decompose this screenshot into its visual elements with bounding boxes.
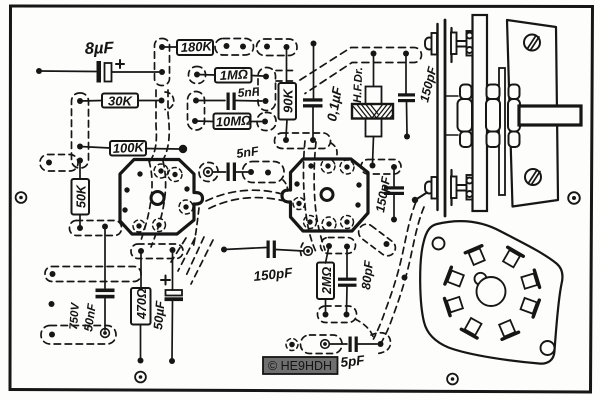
- harness dashed pocket below 90K: [275, 133, 331, 149]
- node dot feeding 90K: [284, 44, 290, 50]
- ring terminal right of 150pF: [304, 247, 313, 256]
- node dot: [265, 170, 271, 176]
- wire down to capacitor 50nF: [104, 227, 106, 289]
- node dot below 80pF: [344, 312, 350, 318]
- node dot top of 0,1uF: [311, 41, 317, 47]
- node dot below 0,1uF: [310, 137, 316, 143]
- wire to resistor 30K: [80, 100, 102, 103]
- harness dashed pocket around 180K left node: [155, 39, 170, 86]
- node dot 5nF right: [263, 98, 269, 104]
- node dot 5pF right: [378, 341, 384, 347]
- top mounting bolt: [425, 31, 473, 56]
- wire 1M right: [252, 75, 264, 78]
- wire 5pF right: [358, 343, 377, 345]
- wire to capacitor 5nF middle: [213, 171, 226, 173]
- svg-text:2MΩ: 2MΩ: [320, 267, 334, 295]
- wire to resistor 2M: [326, 246, 330, 263]
- harness dashed finger from socket V2: [355, 221, 398, 259]
- wire 50nF down: [104, 298, 106, 330]
- harness dashed pocket lower-left with dot: [40, 155, 78, 172]
- socket V2 dashed pin rings: [293, 159, 354, 231]
- resistor 180K: [177, 40, 213, 55]
- node dot below 90K: [283, 137, 289, 143]
- ring terminal 5pF left: [321, 340, 330, 349]
- socket V2 center hole: [321, 189, 333, 201]
- wire choke down: [373, 137, 374, 165]
- kidney plate mounting hole top-left: [433, 238, 445, 250]
- nut stack middle column: [486, 85, 500, 148]
- wire 30K right: [138, 100, 158, 102]
- node dot below choke: [370, 163, 376, 169]
- node dot top of 50nF: [102, 224, 108, 230]
- wire 80pF down: [346, 287, 349, 312]
- harness dashed pocket with two dots (top middle): [257, 39, 298, 56]
- wire to capacitor 150pF: [405, 54, 407, 94]
- resistor 50K vertical: [72, 179, 90, 215]
- harness dashed bundle below socket V1: [171, 237, 213, 284]
- node dot: [224, 43, 230, 49]
- svg-text:1MΩ: 1MΩ: [219, 67, 248, 83]
- harness dashed pocket around 5nF mid left: [199, 163, 218, 182]
- harness dashed curl around ring: [301, 243, 304, 259]
- svg-text:50µF: 50µF: [151, 300, 167, 330]
- harness dashed tail: [331, 143, 337, 157]
- wire 470R down: [140, 325, 142, 359]
- wire 150pF middle down: [393, 195, 395, 217]
- socket V1 dashed pin rings: [133, 164, 193, 232]
- harness dashed corridor right of 1M/5nF: [258, 68, 276, 111]
- wire to capacitor 5pF: [330, 343, 348, 345]
- wire to capacitor 80pF: [346, 247, 348, 278]
- shaft of gang capacitor: [519, 106, 581, 125]
- wire input to C 8uF: [39, 70, 96, 73]
- node dot 150pF bottom left: [221, 247, 227, 253]
- node dot 1M left: [194, 72, 200, 78]
- wire to capacitor 150pF middle: [393, 167, 395, 186]
- polarity plus of 50uF: [161, 276, 170, 285]
- node dot in pocket: [46, 160, 52, 166]
- capacitor 0,1uF: [303, 98, 323, 107]
- node dot: [264, 44, 270, 50]
- capacitor 8uF electrolytic: [97, 60, 125, 83]
- capacitor 5nF middle: [227, 163, 237, 182]
- harness dashed pocket right of 5nF mid: [243, 162, 285, 183]
- node dot top of 150pF (middle): [391, 164, 397, 170]
- kidney plate center hole: [477, 277, 506, 306]
- node dot below 50uF: [169, 358, 175, 364]
- socket V1 center hole: [151, 192, 164, 205]
- resistor 90K vertical: [279, 83, 297, 120]
- wire to HF choke: [373, 54, 375, 88]
- screw bottom on end plate: [525, 169, 541, 185]
- node dot bottom of 150pF middle: [391, 217, 397, 223]
- gang capacitor end plate: [507, 20, 558, 207]
- capacitor 150pF middle: [384, 186, 404, 195]
- node dot top of 150pF (top right): [403, 51, 409, 57]
- wire to capacitor 0,1uF: [313, 44, 315, 99]
- node dot in pocket: [49, 332, 55, 338]
- harness dashed corridor down from pocket: [150, 90, 156, 161]
- mounting target bottom-right: [447, 374, 458, 385]
- node dot 5nF left: [193, 98, 199, 104]
- capacitor 50nF 750V: [96, 289, 115, 299]
- nut stack left column: [458, 85, 473, 148]
- node dot 10M left: [192, 118, 198, 124]
- resistor 100K: [110, 141, 146, 156]
- harness dashed curl around 30K right node: [165, 92, 174, 110]
- svg-text:470Ω: 470Ω: [135, 288, 149, 320]
- capacitor 150pF (top right): [398, 93, 415, 102]
- node dot 10M right: [262, 119, 268, 125]
- wire to capacitor 150pF bottom: [224, 248, 266, 250]
- wire to capacitor 50uF: [172, 250, 174, 290]
- node dot 30K right: [159, 98, 165, 104]
- node dot 100K left: [77, 144, 83, 150]
- capacitor 5nF (middle) ring terminal: [204, 168, 213, 177]
- wire to resistor 10M: [195, 120, 214, 123]
- harness dashed pocket around 5nF/10M left nodes: [188, 92, 205, 131]
- capacitor 5pF: [349, 337, 358, 353]
- node dot above 50K: [77, 158, 83, 164]
- wire 90K down: [286, 120, 287, 138]
- wire 10M right: [251, 121, 263, 123]
- node dot right of 8uF: [159, 69, 165, 75]
- node dot below 150pF: [404, 134, 410, 140]
- harness dashed curves crossing socket V2: [303, 141, 316, 252]
- harness dashed drop from socket V1 nub: [194, 208, 200, 246]
- harness dashed pocket with two dots (right of 180K): [215, 39, 254, 56]
- svg-text:30K: 30K: [108, 94, 133, 109]
- gang capacitor trimmer plate lines: [436, 24, 438, 210]
- harness dashed corridor left column: [72, 93, 89, 168]
- wire to resistor 1M: [197, 74, 215, 77]
- harness dashed pocket bottom-left: [41, 326, 116, 345]
- node dot top of HF choke: [371, 51, 377, 57]
- wire node to resistor 50K: [79, 161, 81, 180]
- node dot 1M right: [263, 74, 269, 80]
- svg-text:H.F.Dr.: H.F.Dr.: [352, 67, 365, 103]
- node dot 30K left: [77, 98, 83, 104]
- harness dashed pocket right of choke node: [361, 160, 401, 175]
- node dot: [248, 169, 254, 175]
- wire 5nF middle right: [236, 171, 248, 173]
- node dot below 470R: [138, 358, 144, 364]
- wire to resistor 470R: [140, 251, 142, 288]
- node dot in finger: [384, 241, 390, 247]
- svg-text:5pF: 5pF: [340, 352, 366, 370]
- wire 0,1uF down: [312, 108, 314, 138]
- harness dashed link to 5pF: [355, 319, 374, 338]
- svg-text:90K: 90K: [281, 88, 296, 113]
- wire 50uF down: [171, 301, 174, 358]
- wire 150pF down: [406, 102, 409, 134]
- node dot below 50K: [77, 225, 83, 231]
- harness dashed pocket around 5pF left: [301, 335, 343, 354]
- gang capacitor middle strip: [499, 68, 505, 195]
- gang capacitor insulating plate: [473, 15, 488, 211]
- wire 5nF right: [236, 100, 262, 103]
- node dot 180K left: [159, 44, 165, 50]
- socket contact slot 6: [461, 317, 484, 338]
- capacitor 80pF: [338, 278, 357, 287]
- mounting target top-left: [16, 192, 27, 203]
- socket contact slot 2: [500, 247, 523, 269]
- socket contact slot 4: [445, 267, 465, 289]
- socket contact slot 7: [496, 319, 518, 339]
- node dot in pocket: [50, 271, 56, 277]
- harness dashed pair socket V1 to socket V2: [206, 190, 280, 201]
- node dot 2M top: [326, 243, 332, 249]
- wire 50K down: [79, 215, 81, 227]
- wire to resistor 180K: [162, 46, 177, 48]
- node dot left of 8uF: [36, 68, 42, 74]
- svg-text:50K: 50K: [75, 184, 89, 208]
- small dashed ring with dot: [286, 339, 298, 351]
- socket contact slot 8: [520, 295, 540, 317]
- watermark box HE9HDH: [263, 357, 338, 374]
- harness dashed curves crossing socket V1: [140, 161, 152, 243]
- tube socket V1 (octagon): [120, 160, 203, 235]
- wire 150pF bottom right: [276, 250, 304, 252]
- tube socket V2 (octagon): [282, 159, 368, 231]
- resistor 10M: [214, 114, 251, 130]
- harness dashed pocket above 470R/50uF: [131, 244, 183, 259]
- socket contact slot 1: [520, 270, 539, 291]
- svg-text:180K: 180K: [180, 38, 213, 55]
- solder blob on socket pin: [179, 145, 187, 153]
- wire node to resistor 90K: [286, 47, 288, 83]
- wire 2M down: [325, 299, 327, 312]
- wire 100K to tube socket pin: [146, 148, 179, 151]
- harness dashed pair to upper right: [300, 48, 422, 94]
- lone node dot: [49, 301, 55, 307]
- capacitor 50uF electrolytic: [165, 290, 184, 301]
- node dot 80pF top: [344, 244, 350, 250]
- harness dashed pocket below 2M/80pF: [318, 306, 357, 323]
- terminal ring with dot: [101, 329, 110, 338]
- node dot 50uF top: [170, 247, 176, 253]
- harness dashed pocket above 2M/80pF: [321, 238, 356, 254]
- svg-text:10MΩ: 10MΩ: [215, 113, 251, 130]
- node dot 470R top: [138, 248, 144, 254]
- resistor 2M vertical: [317, 263, 334, 300]
- svg-text:100K: 100K: [112, 139, 145, 156]
- socket mounting plate (kidney): [420, 221, 562, 364]
- capacitor 5nF (grid): [227, 93, 236, 111]
- socket contact slot 5: [445, 294, 464, 316]
- mounting target bottom-left: [135, 372, 146, 383]
- RF choke H.F.Dr. body: [366, 87, 382, 137]
- socket contact slot 3: [465, 246, 487, 266]
- wire to capacitor 5nF: [196, 100, 225, 102]
- kidney plate mounting hole bottom-right: [541, 341, 555, 355]
- wire from bolt to harness: [416, 193, 427, 200]
- harness dashed pair along kidney plate: [374, 203, 416, 339]
- resistor 470R vertical: [131, 288, 151, 325]
- wire C8uF to node: [112, 71, 160, 73]
- socket V2 pin dots: [294, 163, 361, 226]
- wire to resistor 100K: [80, 147, 110, 149]
- resistor 30K: [102, 94, 138, 108]
- harness dashed curl around node: [371, 333, 391, 354]
- socket V1 pin dots: [122, 168, 189, 228]
- svg-text:5nF: 5nF: [237, 84, 260, 100]
- kidney plate key nub: [475, 273, 487, 285]
- capacitor 150pF bottom: [267, 241, 276, 259]
- node dot at bolt wire: [412, 197, 418, 203]
- screw top on end plate: [524, 35, 540, 51]
- svg-text:8µF: 8µF: [85, 39, 115, 58]
- mounting target right: [568, 192, 580, 204]
- node dot: [240, 44, 246, 50]
- harness dashed pocket with two dots: [70, 221, 122, 236]
- RF choke hatched flange: [352, 104, 398, 119]
- nut stack right column: [508, 85, 520, 148]
- bottom mounting bolt: [425, 175, 473, 200]
- node dot below 2M: [323, 312, 329, 318]
- harness dashed pocket 1M left: [189, 67, 206, 84]
- harness dashed pocket around 10M right node: [257, 113, 276, 131]
- node dot on harness: [402, 275, 408, 281]
- resistor 1M: [215, 68, 252, 83]
- harness dashed pocket mid-left: [45, 267, 141, 282]
- svg-text:© HE9HDH: © HE9HDH: [268, 359, 332, 373]
